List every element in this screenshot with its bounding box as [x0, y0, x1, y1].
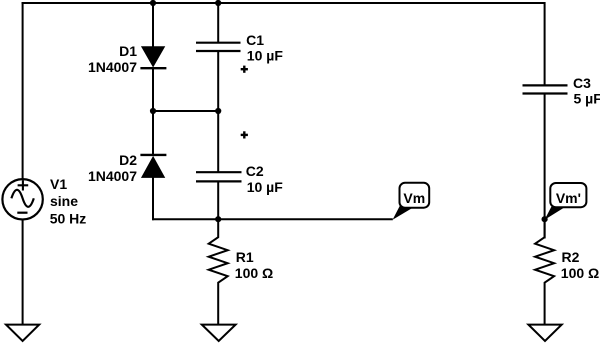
capacitor C1	[196, 43, 241, 51]
label C2 polarity +	[241, 131, 248, 138]
label C3 "C3 5 µF"	[573, 75, 600, 107]
resistor R1	[209, 219, 228, 325]
diode D2	[140, 155, 166, 178]
ground GND3 (R2)	[528, 325, 561, 341]
voltage source V1	[2, 179, 42, 219]
svg-text:R1: R1	[236, 249, 254, 265]
svg-text:C3: C3	[573, 75, 591, 91]
svg-text:D1: D1	[119, 43, 137, 59]
wire D2 top lead	[152, 110, 154, 155]
label V1 "V1 sine 50 Hz"	[50, 176, 87, 227]
label R2 "R2 100 Ω"	[561, 249, 599, 281]
label C1 polarity +	[241, 66, 248, 73]
svg-text:5 µF: 5 µF	[574, 91, 600, 107]
svg-text:50 Hz: 50 Hz	[50, 211, 87, 227]
wire top rail	[22, 2, 545, 4]
label D1 "D1 1N4007"	[88, 43, 137, 75]
wire middle rail	[153, 110, 218, 112]
node Vm' junction	[542, 216, 548, 222]
wire right rail	[544, 2, 546, 86]
svg-text:Vm: Vm	[403, 190, 425, 206]
wire bottom rail to Vm	[152, 218, 393, 220]
svg-text:1N4007: 1N4007	[88, 59, 137, 75]
node Vm junction	[215, 216, 221, 222]
svg-text:sine: sine	[50, 193, 78, 209]
wire left rail	[22, 2, 24, 179]
diode D1	[140, 47, 166, 68]
resistor R2	[535, 219, 554, 325]
ground GND1 (V1)	[6, 325, 39, 341]
node middle junction right	[215, 108, 221, 114]
svg-text:100 Ω: 100 Ω	[235, 265, 273, 281]
label C2 "C2 10 µF"	[246, 163, 283, 195]
label C1 "C1 10 µF"	[246, 32, 283, 63]
svg-text:Vm': Vm'	[556, 190, 581, 206]
wire D1 to middle rail	[152, 68, 154, 112]
wire C2 bottom lead	[217, 181, 219, 220]
wire C1 to C2	[217, 51, 219, 172]
probe Vm callout	[393, 183, 430, 220]
label D2 "D2 1N4007"	[88, 152, 137, 184]
svg-text:D2: D2	[119, 152, 137, 168]
capacitor C2	[196, 172, 242, 181]
svg-text:100 Ω: 100 Ω	[561, 265, 599, 281]
svg-text:C1: C1	[246, 32, 264, 48]
ground GND2 (R1)	[202, 325, 236, 341]
svg-text:V1: V1	[50, 176, 67, 192]
node top junction right (C1 branch)	[215, 0, 221, 6]
svg-text:1N4007: 1N4007	[88, 168, 137, 184]
wire C1 top lead	[217, 2, 219, 43]
wire D1 top lead	[152, 2, 154, 48]
wire C3 bottom lead	[544, 94, 546, 239]
svg-text:10 µF: 10 µF	[247, 47, 284, 63]
wire V1 bottom lead	[22, 221, 24, 326]
label R1 "R1 100 Ω"	[235, 249, 273, 281]
node middle junction left	[150, 108, 156, 114]
svg-text:R2: R2	[562, 249, 580, 265]
svg-text:10 µF: 10 µF	[247, 179, 284, 195]
capacitor C3	[523, 85, 568, 93]
svg-text:C2: C2	[246, 163, 264, 179]
wire D2 bottom lead	[152, 177, 154, 220]
node top junction left (D1 branch)	[150, 0, 156, 6]
probe Vm' callout	[545, 183, 587, 220]
